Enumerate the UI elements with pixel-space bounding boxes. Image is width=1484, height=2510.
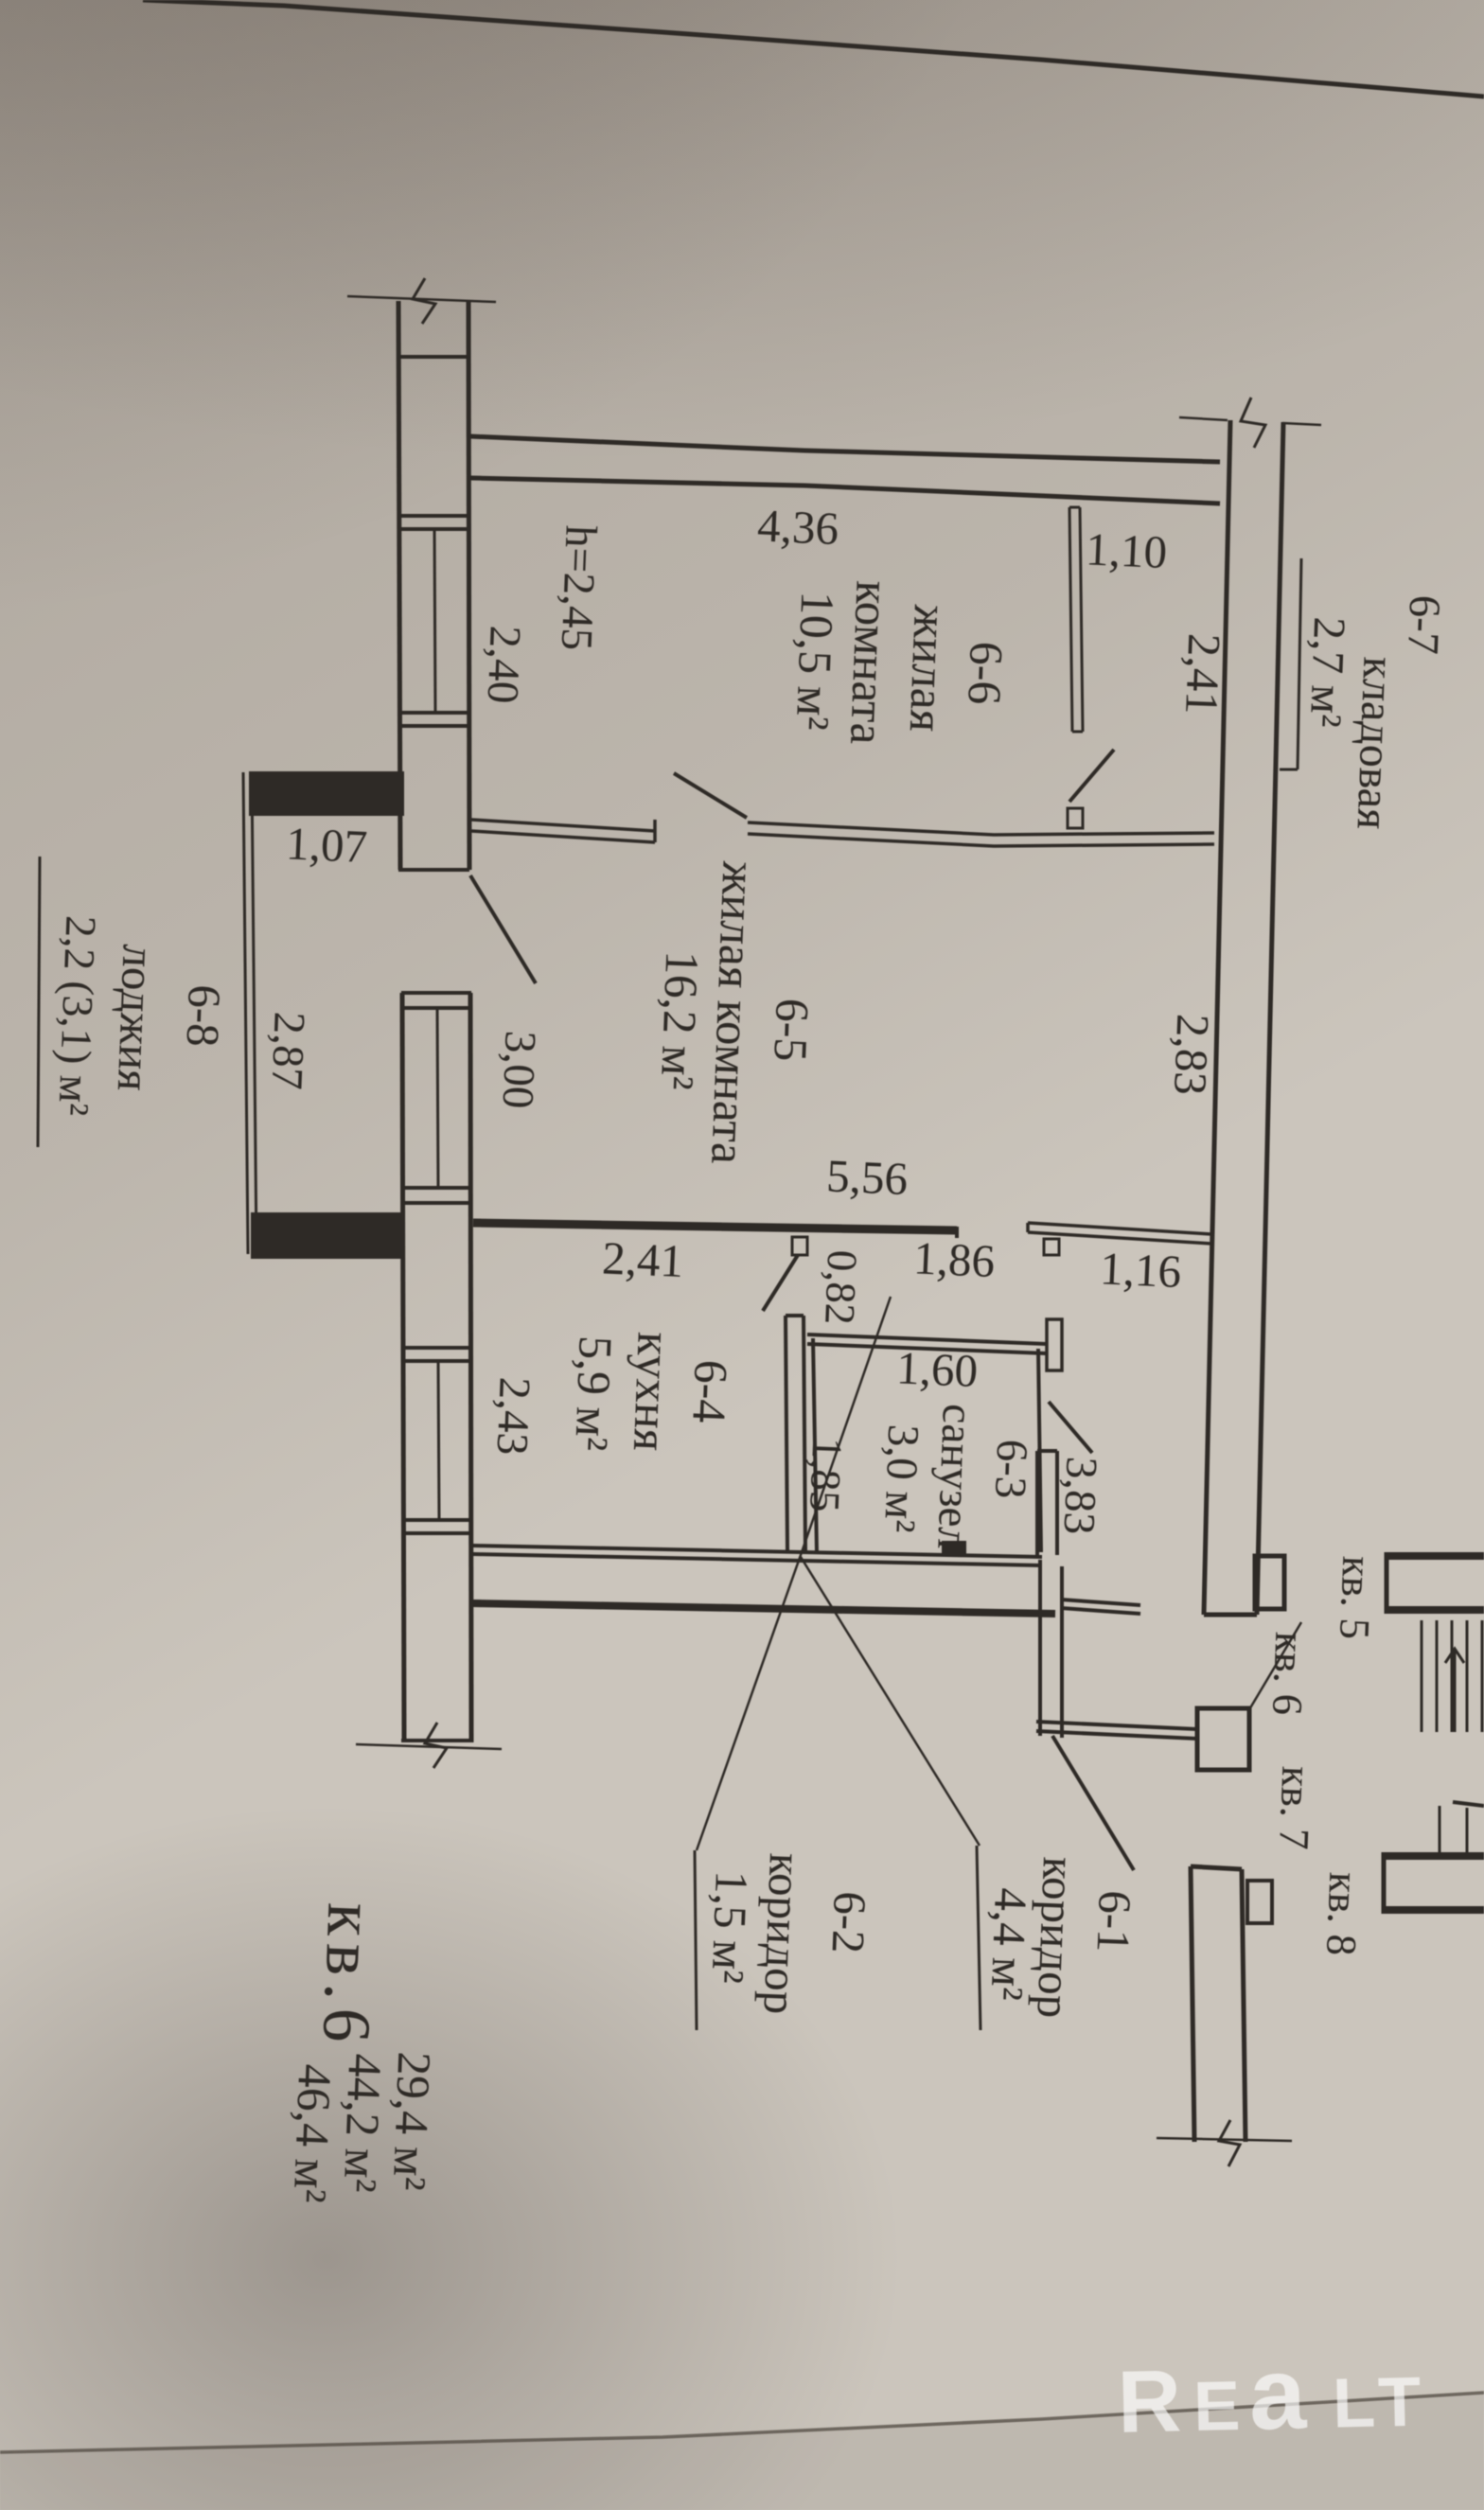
svg-text:4,4 м²: 4,4 м² <box>980 1887 1037 2002</box>
svg-text:3,0 м²: 3,0 м² <box>874 1423 927 1533</box>
svg-text:2,2 (3,1) м²: 2,2 (3,1) м² <box>49 915 105 1117</box>
svg-text:1,07: 1,07 <box>285 817 368 873</box>
svg-text:2,87: 2,87 <box>262 1011 314 1090</box>
svg-text:5,56: 5,56 <box>825 1149 909 1205</box>
svg-text:1,16: 1,16 <box>1099 1242 1182 1298</box>
svg-text:кв.6: кв.6 <box>309 1901 390 2051</box>
svg-text:кв. 6: кв. 6 <box>1263 1631 1314 1716</box>
svg-text:2,41: 2,41 <box>1175 632 1230 716</box>
svg-text:6-8: 6-8 <box>177 984 231 1048</box>
svg-text:0,82: 0,82 <box>816 1249 866 1326</box>
svg-text:6-1: 6-1 <box>1087 1890 1141 1953</box>
svg-text:санузел: санузел <box>927 1403 982 1550</box>
svg-text:L: L <box>1332 2363 1376 2443</box>
svg-text:1,10: 1,10 <box>1085 522 1168 578</box>
svg-text:1,86: 1,86 <box>912 1231 996 1287</box>
svg-text:6-5: 6-5 <box>764 998 820 1063</box>
svg-text:2,41: 2,41 <box>601 1231 684 1287</box>
svg-text:3,00: 3,00 <box>493 1030 545 1109</box>
svg-text:6-7: 6-7 <box>1398 594 1449 656</box>
svg-text:6-2: 6-2 <box>822 1891 876 1954</box>
svg-text:E: E <box>1192 2366 1241 2446</box>
svg-text:кв. 7: кв. 7 <box>1270 1765 1320 1850</box>
svg-text:4,36: 4,36 <box>756 499 839 555</box>
svg-text:комната: комната <box>839 580 899 746</box>
svg-text:3,83: 3,83 <box>1054 1456 1106 1535</box>
svg-text:6-3: 6-3 <box>985 1439 1036 1500</box>
svg-text:46,4 м²: 46,4 м² <box>284 2063 343 2204</box>
svg-text:кв. 8: кв. 8 <box>1317 1871 1368 1956</box>
svg-text:44,2 м²: 44,2 м² <box>334 2053 393 2194</box>
svg-text:лоджия: лоджия <box>108 944 166 1092</box>
svg-text:6-6: 6-6 <box>958 641 1014 706</box>
svg-text:кухня: кухня <box>623 1331 680 1452</box>
svg-text:2,43: 2,43 <box>487 1376 539 1456</box>
svg-text:a: a <box>1247 2335 1308 2450</box>
svg-text:жилая: жилая <box>899 603 957 733</box>
svg-text:1,5 м²: 1,5 м² <box>701 1870 758 1985</box>
svg-text:T: T <box>1377 2362 1422 2442</box>
svg-text:10,5 м²: 10,5 м² <box>786 591 845 732</box>
svg-text:1,60: 1,60 <box>895 1341 979 1397</box>
svg-text:жилая комната: жилая комната <box>700 859 765 1165</box>
svg-text:5,9 м²: 5,9 м² <box>565 1335 623 1452</box>
svg-text:коридор: коридор <box>753 1852 812 2015</box>
svg-text:2,83: 2,83 <box>1164 1013 1219 1096</box>
svg-text:кладовая: кладовая <box>1347 656 1404 830</box>
svg-text:h=2,45: h=2,45 <box>552 524 606 651</box>
svg-text:кв. 5: кв. 5 <box>1331 1555 1381 1640</box>
svg-text:16,2 м²: 16,2 м² <box>651 950 710 1091</box>
svg-text:R: R <box>1117 2351 1183 2450</box>
svg-text:6-4: 6-4 <box>682 1359 738 1424</box>
svg-text:2,40: 2,40 <box>478 625 530 704</box>
svg-text:1,85: 1,85 <box>801 1437 851 1513</box>
svg-text:2,7 м²: 2,7 м² <box>1300 616 1354 729</box>
